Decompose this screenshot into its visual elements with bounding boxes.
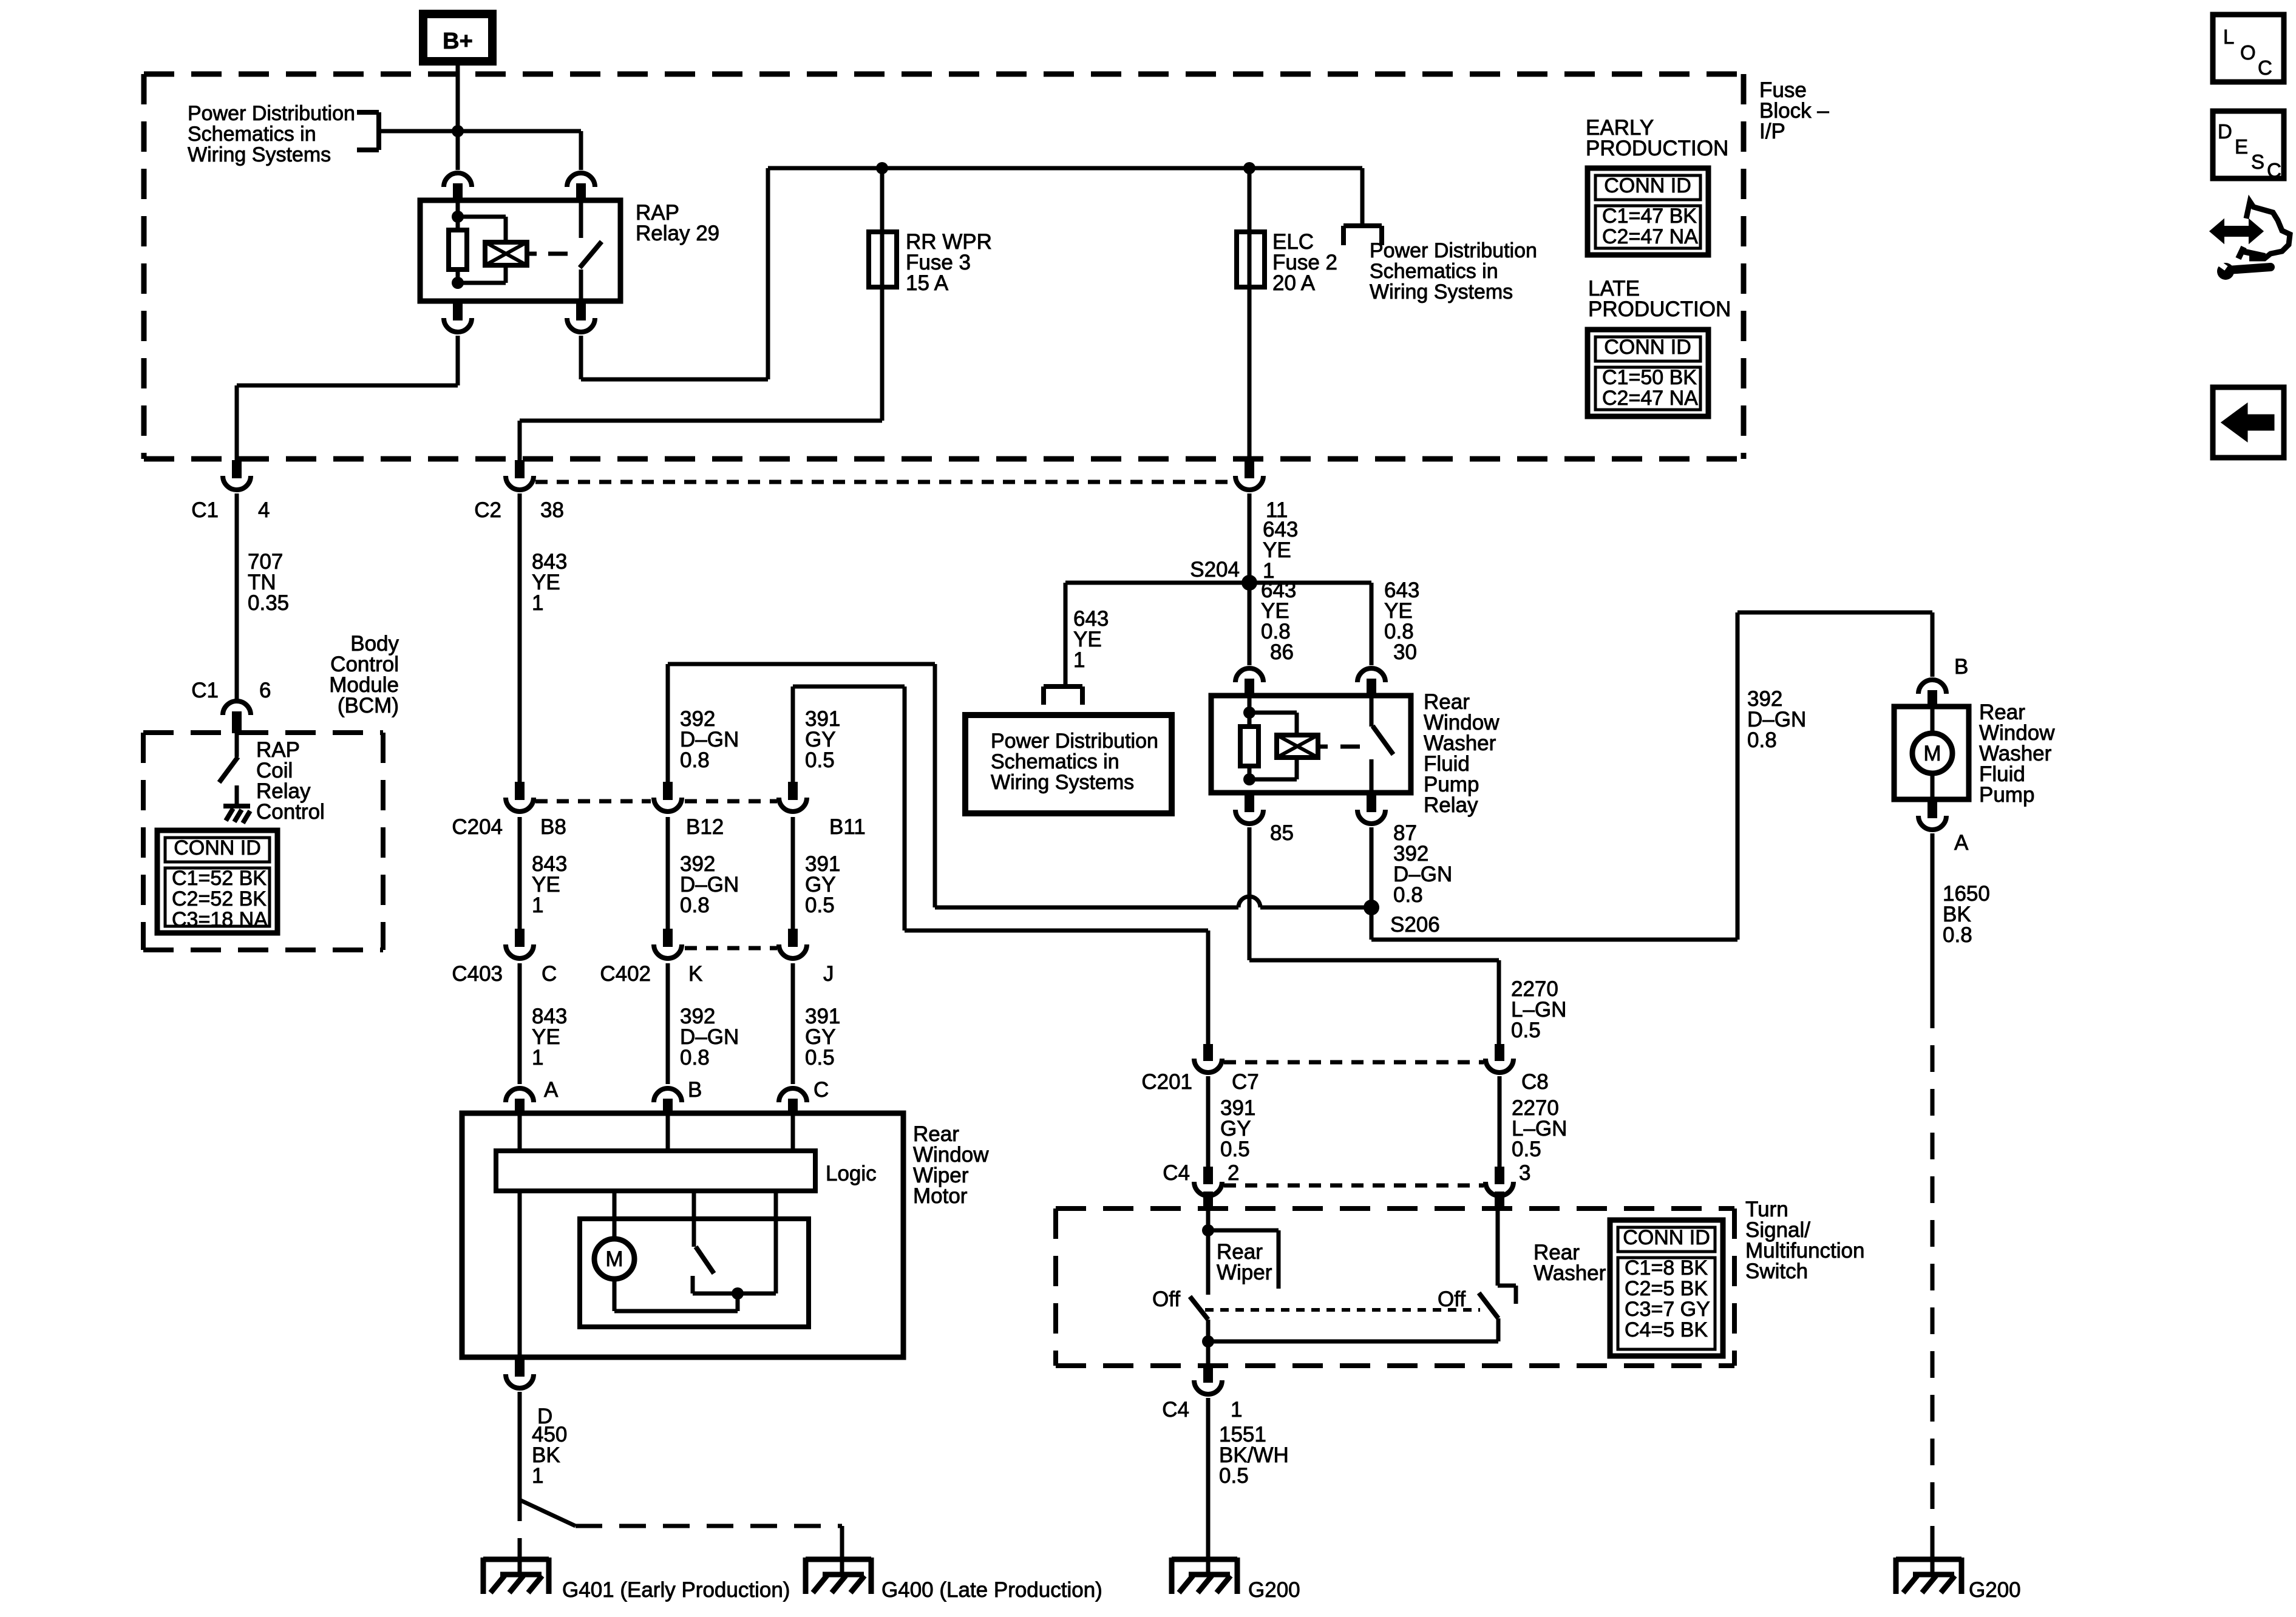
label Rear Window Washer Fluid Pump Relay <box>1424 690 1500 817</box>
svg-text:S: S <box>2251 151 2264 173</box>
svg-text:C3=18 NA: C3=18 NA <box>172 908 268 931</box>
wire S206 to rear washer pump B <box>1371 612 1932 940</box>
connector C402 pin J <box>779 929 807 958</box>
label 843 YE 1 (above C403) <box>532 852 567 917</box>
connector C204 pin B8 <box>506 782 534 812</box>
svg-text:D: D <box>2218 120 2232 143</box>
wire C4-2 into wiper switch <box>1206 1209 1211 1295</box>
label 2270 L-GN 0.5 (C201-C4) <box>1512 1096 1567 1161</box>
label 392 D-GN 0.8 (to pump) <box>1747 687 1806 752</box>
RAP relay coil element <box>485 242 527 265</box>
svg-text:C4=5 BK: C4=5 BK <box>1625 1318 1708 1341</box>
node RAP coil top <box>452 211 464 223</box>
label G200 (right) <box>1969 1578 2021 1602</box>
washer relay switch lower contact <box>1370 759 1374 793</box>
svg-text:Logic: Logic <box>826 1162 877 1185</box>
label A <box>1954 831 1969 855</box>
service icon double arrow <box>2211 221 2262 242</box>
svg-text:Motor: Motor <box>913 1184 968 1208</box>
connector C201 pin C8 <box>1486 1044 1513 1073</box>
svg-text:Control: Control <box>256 800 325 824</box>
node fuse 2 feed <box>1243 162 1255 174</box>
label Fuse Block - I/P <box>1759 78 1829 143</box>
svg-text:0.8: 0.8 <box>680 893 710 917</box>
switch mechanical link dotted line <box>1205 1308 1480 1312</box>
RAP coil relay control switch wire <box>235 733 239 757</box>
label B (motor) <box>688 1078 702 1102</box>
RAP relay coil leads <box>458 217 506 283</box>
RAP relay coil pin top connector <box>444 173 472 200</box>
svg-text:0.5: 0.5 <box>1512 1137 1541 1161</box>
svg-text:I/P: I/P <box>1759 120 1785 143</box>
label EARLY PRODUCTION <box>1586 116 1728 160</box>
label 843 YE 1 (above C204) <box>532 550 567 615</box>
RAP relay coil bottom pin 85 connector <box>444 301 472 332</box>
DESC icon box <box>2213 111 2284 181</box>
ground G401 <box>483 1542 549 1594</box>
svg-text:G401 (Early Production): G401 (Early Production) <box>562 1578 790 1602</box>
label C403 C <box>452 962 557 986</box>
svg-text:38: 38 <box>540 498 564 522</box>
label C402 K <box>600 962 702 986</box>
wiper park switch contact <box>691 1276 695 1293</box>
svg-text:C2=5 BK: C2=5 BK <box>1625 1277 1708 1300</box>
body control module dashed box <box>143 733 383 950</box>
svg-text:Off: Off <box>1438 1287 1466 1311</box>
label 643 YE 1 (branch to power distribution) <box>1073 607 1109 672</box>
washer relay coil leads <box>1249 713 1297 779</box>
washer relay pin 86 connector <box>1235 668 1263 696</box>
label J <box>823 962 834 986</box>
svg-text:0.8: 0.8 <box>1747 728 1777 752</box>
label C1 4 <box>191 498 270 522</box>
svg-text:1: 1 <box>532 1046 543 1070</box>
label 643 YE 0.8 30 <box>1384 578 1419 664</box>
svg-text:0.5: 0.5 <box>1220 1137 1250 1161</box>
svg-text:0.8: 0.8 <box>680 1046 710 1070</box>
node junction on B+ wire <box>452 125 464 137</box>
label Turn Signal Multifunction Switch <box>1745 1198 1864 1283</box>
fuse block - I/P dashed enclosure box <box>144 74 1744 459</box>
wire common to washer switch <box>1208 1340 1498 1344</box>
service icon wrench <box>2216 261 2271 280</box>
wire C4-1 with label 1551 BK/WH 0.5 <box>1206 1398 1211 1522</box>
svg-text:S206: S206 <box>1390 913 1440 937</box>
svg-text:Wiring Systems: Wiring Systems <box>1370 280 1513 303</box>
rear window wiper motor box <box>462 1113 903 1357</box>
label B11 <box>829 815 866 839</box>
label Rear Wiper <box>1217 1240 1272 1284</box>
svg-text:C1=50 BK: C1=50 BK <box>1602 366 1697 389</box>
ground G200 (center) <box>1172 1542 1237 1594</box>
fuse block connector mating dotted line <box>535 480 1234 484</box>
dashed wire to G200 <box>1206 1522 1211 1542</box>
RAP relay coil branch wire <box>456 200 460 283</box>
svg-text:CONN ID: CONN ID <box>1604 174 1691 197</box>
wire S204 to off-page bracket <box>1065 583 1249 686</box>
washer relay coil to switch dashed link <box>1318 745 1360 749</box>
svg-text:Power Distribution: Power Distribution <box>1370 239 1537 262</box>
svg-text:C2=52 BK: C2=52 BK <box>172 887 267 910</box>
RR WPR fuse 3 element <box>869 232 897 287</box>
svg-text:L: L <box>2223 25 2234 48</box>
svg-text:G200: G200 <box>1969 1578 2021 1602</box>
svg-text:0.5: 0.5 <box>805 1046 835 1070</box>
label Power Distribution Schematics in Wiring Systems (fuse block) <box>1370 239 1537 303</box>
wire J to motor C with label 391 GY 0.5 <box>791 963 795 1084</box>
wire K to motor B with label 392 D-GN 0.8 <box>666 963 670 1084</box>
ELC fuse 2 element <box>1237 232 1265 287</box>
node S206 <box>1364 900 1379 915</box>
label 707 TN 0.35 <box>248 550 289 615</box>
label A (motor) <box>544 1078 559 1102</box>
svg-text:PRODUCTION: PRODUCTION <box>1586 137 1728 160</box>
label Rear Window Wiper Motor <box>913 1122 989 1208</box>
svg-text:86: 86 <box>1270 640 1294 664</box>
svg-text:C2=47 NA: C2=47 NA <box>1602 387 1698 410</box>
wire 11 to S204 with label 643 YE 1 <box>1248 493 1252 583</box>
washer relay pin 87 connector <box>1357 793 1385 824</box>
svg-text:Switch: Switch <box>1745 1259 1808 1283</box>
svg-text:15 A: 15 A <box>906 271 949 295</box>
label 392 D-GN 0.8 (above B12) <box>680 707 739 772</box>
RAP relay switch pin 30 top connector <box>567 173 595 200</box>
rear washer switch lower wire <box>1496 1318 1501 1341</box>
svg-text:Wiring Systems: Wiring Systems <box>991 771 1134 794</box>
label 392 D-GN 0.8 (above C402) <box>680 852 739 917</box>
late production CONN ID table <box>1588 330 1708 416</box>
label RR WPR Fuse 3 15 A <box>906 230 992 295</box>
node wiper park circuit <box>732 1287 744 1300</box>
svg-text:C402: C402 <box>600 962 651 986</box>
svg-text:C8: C8 <box>1521 1070 1549 1094</box>
connector C4 pin 2 <box>1194 1167 1222 1209</box>
turn signal multifunction switch dashed box <box>1056 1209 1734 1366</box>
connector C2 pin 38 at fuse block <box>506 460 534 490</box>
svg-text:Off: Off <box>1152 1287 1180 1311</box>
rear wiper bracket <box>1208 1230 1279 1289</box>
svg-text:1: 1 <box>1231 1398 1242 1422</box>
wire RAP relay coil return to C1 pin 4 <box>237 336 458 461</box>
label 391 GY 0.5 (C201-C4) <box>1220 1096 1255 1161</box>
svg-text:M: M <box>605 1247 623 1271</box>
svg-text:0.8: 0.8 <box>1393 883 1423 907</box>
node RAP coil bottom <box>452 277 464 289</box>
rear washer switch blade <box>1479 1293 1498 1318</box>
svg-text:85: 85 <box>1270 821 1294 845</box>
wires motor pins into logic module <box>520 1113 793 1151</box>
connector C402 mating dotted line <box>685 946 777 951</box>
connector C4 pin 3 <box>1486 1167 1513 1209</box>
node rear wiper feed <box>1202 1224 1214 1236</box>
label RAP Coil Relay Control <box>256 738 325 824</box>
svg-text:C1: C1 <box>191 679 219 702</box>
svg-text:B8: B8 <box>540 815 566 839</box>
wire feed row to off-page bracket <box>1360 168 1365 226</box>
label 87 392 D-GN 0.8 <box>1393 821 1452 907</box>
washer relay switch contact <box>1370 696 1374 727</box>
washer relay coil element <box>1277 735 1318 758</box>
svg-text:Wiring Systems: Wiring Systems <box>188 143 331 166</box>
label 643 YE 0.8 86 <box>1261 578 1296 664</box>
svg-text:Schematics in: Schematics in <box>1370 260 1498 283</box>
svg-text:Schematics in: Schematics in <box>991 750 1119 773</box>
wire 391 GY up from B11 to C7 route <box>793 686 1208 1044</box>
label G400 (Late Production) <box>881 1578 1102 1602</box>
svg-text:C2=47 NA: C2=47 NA <box>1602 225 1698 248</box>
connector pin 11 at fuse block <box>1235 460 1263 490</box>
label S204 <box>1190 558 1240 581</box>
svg-text:Wiper: Wiper <box>1217 1261 1272 1284</box>
inner wiper motor box <box>580 1219 809 1327</box>
RAP relay 29 box <box>420 200 620 301</box>
power distribution schematics reference box <box>965 715 1172 813</box>
svg-text:C2: C2 <box>474 498 501 522</box>
off-page bracket to Power Distribution (top right) <box>1343 226 1382 245</box>
ground G200 (right) <box>1896 1542 1961 1594</box>
washer pump motor M <box>1912 707 1952 799</box>
rear window washer fluid pump box <box>1894 707 1969 799</box>
wires logic to inner motor circuit <box>614 1191 776 1293</box>
svg-text:Relay 29: Relay 29 <box>636 222 719 245</box>
wire B11 to C402-J with label 391 GY 0.5 <box>791 817 795 929</box>
label G200 (center) <box>1248 1578 1300 1602</box>
svg-text:0.5: 0.5 <box>1511 1019 1541 1042</box>
svg-text:20 A: 20 A <box>1272 271 1316 295</box>
RAP relay coil to switch dashed link <box>527 252 568 256</box>
label B <box>1954 655 1968 679</box>
label Power Distribution Schematics in Wiring Systems (top left) <box>188 102 355 166</box>
resistor inside RAP relay <box>449 230 467 269</box>
wire C to motor A with label 843 YE 1 <box>518 963 522 1084</box>
svg-text:B+: B+ <box>443 29 473 54</box>
label 85 <box>1270 821 1294 845</box>
label ELC Fuse 2 20 A <box>1272 230 1337 295</box>
dashed wire D to G401 <box>518 1494 522 1542</box>
wire down to RAP relay switch pin <box>579 131 583 170</box>
svg-text:0.5: 0.5 <box>805 748 835 772</box>
svg-text:C: C <box>2258 56 2272 79</box>
svg-text:0.8: 0.8 <box>1943 923 1972 947</box>
wire bracket to B+ node <box>379 129 581 134</box>
svg-text:C201: C201 <box>1141 1070 1192 1094</box>
svg-text:A: A <box>544 1078 559 1102</box>
svg-text:B12: B12 <box>686 815 724 839</box>
svg-text:0.8: 0.8 <box>680 748 710 772</box>
svg-text:0.5: 0.5 <box>805 893 835 917</box>
wiper park switch blade <box>696 1247 714 1273</box>
motor connector pin D <box>506 1357 534 1388</box>
svg-text:C3=7 GY: C3=7 GY <box>1625 1298 1710 1321</box>
wire C4-3 into washer switch <box>1498 1209 1516 1304</box>
svg-text:Washer: Washer <box>1533 1261 1606 1285</box>
RAP relay switch lower contact <box>579 269 583 301</box>
ground G400 <box>806 1542 871 1594</box>
wiper motor M <box>594 1239 634 1279</box>
label S206 <box>1390 913 1440 937</box>
svg-text:CONN ID: CONN ID <box>174 836 261 859</box>
connector C403 pin C <box>506 929 534 958</box>
svg-text:6: 6 <box>259 679 271 702</box>
svg-text:Schematics in: Schematics in <box>188 123 316 146</box>
svg-text:1: 1 <box>532 1464 543 1488</box>
RAP coil relay control lower wire <box>235 785 239 805</box>
svg-text:K: K <box>688 962 702 986</box>
svg-text:1: 1 <box>532 591 543 615</box>
svg-text:0.5: 0.5 <box>1219 1464 1249 1488</box>
svg-text:C7: C7 <box>1232 1070 1259 1094</box>
wire C8 to C4-3 with label 2270 L-GN 0.5 <box>1498 1076 1502 1167</box>
early production CONN ID table <box>1588 168 1708 255</box>
rear wiper switch lower wire <box>1206 1320 1211 1341</box>
label Rear Washer <box>1533 1241 1606 1285</box>
svg-text:B: B <box>1954 655 1968 679</box>
wiper park switch circuit <box>614 1279 776 1311</box>
label C1 6 <box>191 679 271 702</box>
connector C201 pin C7 <box>1194 1044 1222 1073</box>
wire C7 to C4-2 with label 391 GY 0.5 <box>1206 1076 1211 1167</box>
label 843 YE 1 (above motor) <box>532 1005 567 1070</box>
label Off (wiper) <box>1152 1287 1180 1311</box>
label C204 B8 <box>452 815 566 839</box>
svg-text:E: E <box>2235 135 2248 158</box>
wire pump A with label 1650 BK 0.8 <box>1931 833 1935 1002</box>
label C4 1 <box>1162 1398 1242 1422</box>
RAP relay switch blade <box>580 242 602 268</box>
connector C4 pin 1 <box>1194 1366 1222 1394</box>
svg-text:2: 2 <box>1228 1161 1239 1185</box>
wire B8 to C403 with label 843 YE 1 <box>518 817 522 929</box>
svg-text:B11: B11 <box>829 815 866 839</box>
label Body Control Module (BCM) <box>329 632 399 717</box>
svg-text:C4: C4 <box>1162 1398 1189 1422</box>
washer relay pin 30 connector <box>1357 668 1385 696</box>
svg-text:PRODUCTION: PRODUCTION <box>1588 297 1731 321</box>
svg-text:G200: G200 <box>1248 1578 1300 1602</box>
service icon outline arrow <box>2238 202 2290 259</box>
ground symbol inside BCM <box>223 806 250 823</box>
wire C2-38 down with label 843 YE 1 <box>518 493 522 782</box>
svg-text:C1=47 BK: C1=47 BK <box>1602 205 1697 228</box>
label Off (washer) <box>1438 1287 1466 1311</box>
wire fuse 3 to C2 pin 38 <box>520 421 882 461</box>
svg-text:Pump: Pump <box>1979 783 2034 807</box>
wire pin D with label 450 BK 1 <box>518 1392 522 1494</box>
connector C1 pin 4 at fuse block <box>223 460 251 490</box>
label D <box>537 1405 552 1428</box>
connector C201 mating dotted line <box>1224 1060 1484 1065</box>
svg-text:1: 1 <box>532 893 543 917</box>
label C4 2 <box>1163 1161 1239 1185</box>
node washer coil top <box>1243 707 1255 719</box>
motor connector pin C <box>779 1088 807 1113</box>
wire RAP relay switch output to fuse row <box>581 168 768 379</box>
svg-text:(BCM): (BCM) <box>338 694 399 717</box>
back arrow icon box <box>2213 387 2284 458</box>
label C201 C7 <box>1141 1070 1258 1094</box>
connector C1 pin 6 at BCM <box>223 701 251 733</box>
svg-text:3: 3 <box>1519 1161 1530 1185</box>
label 1551 BK/WH 0.5 <box>1219 1423 1289 1488</box>
svg-text:C: C <box>542 962 557 986</box>
logic module bar <box>496 1151 815 1191</box>
LOC icon box <box>2213 15 2284 82</box>
label G401 (Early Production) <box>562 1578 790 1602</box>
dashed wire branch jog to G400 <box>521 1500 842 1542</box>
label Logic <box>826 1162 877 1185</box>
rear wiper switch blade <box>1190 1297 1208 1320</box>
washer relay pin 85 connector <box>1235 793 1263 824</box>
turn signal switch CONN ID table <box>1610 1220 1723 1356</box>
off-page bracket to Power Distribution Schematics <box>357 112 379 150</box>
motor connector pin A <box>506 1088 534 1113</box>
label RAP Relay 29 <box>636 201 719 245</box>
label 643 YE 1 (above S204) <box>1263 518 1298 583</box>
svg-text:O: O <box>2240 41 2256 64</box>
node S204 <box>1241 575 1257 591</box>
svg-text:C1=8 BK: C1=8 BK <box>1625 1256 1708 1280</box>
svg-text:Power Distribution: Power Distribution <box>991 730 1158 753</box>
label 391 GY 0.5 (above motor) <box>805 1005 840 1070</box>
svg-text:C4: C4 <box>1163 1161 1190 1185</box>
node washer coil bottom <box>1243 773 1255 785</box>
svg-text:CONN ID: CONN ID <box>1623 1226 1710 1249</box>
label 2270 L-GN 0.5 (above C8) <box>1511 977 1566 1042</box>
rear window washer fluid pump relay box <box>1211 696 1411 793</box>
svg-text:C: C <box>2267 159 2281 181</box>
wire 392 D-GN up from B12 to S206 route <box>668 664 1371 907</box>
label LATE PRODUCTION <box>1588 277 1731 321</box>
label 392 D-GN 0.8 (above motor) <box>680 1005 739 1070</box>
connector C402 pin K <box>654 929 682 958</box>
svg-text:S204: S204 <box>1190 558 1240 581</box>
wire C1-4 to BCM with label 707 TN 0.35 <box>235 493 239 701</box>
wire pin 87 down to S206 <box>1370 827 1374 940</box>
svg-text:CONN ID: CONN ID <box>1604 336 1691 359</box>
wire logic through to pin D <box>518 1191 522 1357</box>
node fuse 3 feed <box>876 162 888 174</box>
off-page bracket below S204 <box>1044 686 1082 705</box>
svg-text:4: 4 <box>258 498 270 522</box>
svg-text:C204: C204 <box>452 815 503 839</box>
dashed wire pump A to G200 <box>1931 1002 1935 1542</box>
svg-text:A: A <box>1954 831 1969 855</box>
wire through RR WPR fuse 3 <box>880 168 885 421</box>
label 391 GY 0.5 (above C402) <box>805 852 840 917</box>
RAP relay switch contact <box>579 200 583 238</box>
BCM CONN ID table <box>157 830 277 933</box>
washer relay switch blade <box>1373 726 1393 754</box>
pump connector pin B <box>1918 680 1946 707</box>
svg-text:G400 (Late Production): G400 (Late Production) <box>881 1578 1102 1602</box>
node wiper washer common <box>1202 1335 1214 1347</box>
motor connector pin B <box>654 1088 682 1113</box>
svg-text:C403: C403 <box>452 962 503 986</box>
svg-text:M: M <box>1923 742 1941 765</box>
connector C204 pin B11 <box>779 782 807 812</box>
label 3 <box>1519 1161 1530 1185</box>
connector C4 mating dotted line <box>1224 1184 1484 1188</box>
svg-text:Relay: Relay <box>1424 793 1478 817</box>
svg-text:0.35: 0.35 <box>248 591 289 615</box>
washer relay coil branch wire <box>1248 696 1252 779</box>
resistor inside washer relay <box>1240 727 1258 766</box>
svg-text:B: B <box>688 1078 702 1102</box>
label 1650 BK 0.8 <box>1943 882 1990 947</box>
connector C204 pin B12 <box>654 782 682 812</box>
label 391 GY 0.5 (above B11) <box>805 707 840 772</box>
wire through ELC fuse 2 <box>1248 168 1252 459</box>
